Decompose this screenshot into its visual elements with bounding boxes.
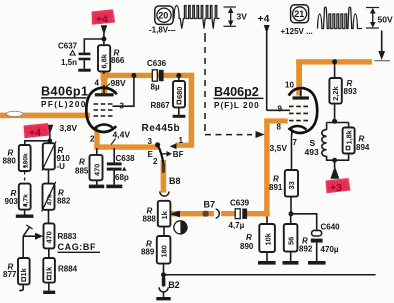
capacitor C639 [235,209,247,219]
svg-text:BF: BF [173,150,184,159]
svg-text:B2: B2 [168,280,180,290]
svg-text:68p: 68p [115,173,129,182]
B7 arrow into R888 node [169,211,180,218]
arrow +4 supply (top left) [101,25,108,35]
wire V1 cathode drop (orange) [94,131,99,150]
svg-text:-U: -U [57,162,66,171]
ground (R885) [89,180,104,188]
tube V1 envelope [86,88,117,132]
C640 labels [321,223,341,255]
node LC top [332,119,337,124]
svg-text:1,5n: 1,5n [61,58,77,67]
pin label 2 (V1 cathode) [90,135,95,144]
R885 label [75,158,89,176]
R883 label [58,232,78,241]
wire R910 to R882 [48,169,50,183]
svg-text:8µ: 8µ [151,83,160,92]
node cathode network [289,211,294,216]
svg-text:33: 33 [287,181,296,189]
svg-text:180: 180 [160,245,169,257]
node B (+4 left) [47,138,52,143]
wire node B to R880 [25,141,50,145]
R903 label [5,189,19,206]
svg-text:2: 2 [90,135,95,144]
svg-text:98V: 98V [111,78,126,88]
wire node to R892 [290,214,292,224]
tube V1 cathode [95,125,113,132]
connector B7 socket arc [216,209,220,218]
svg-text:680: 680 [175,87,184,99]
svg-text:+3: +3 [330,182,342,194]
svg-text:877: 877 [3,270,17,279]
relay Re445b label [142,123,181,134]
R892 label [299,237,313,254]
svg-text:47k: 47k [46,194,53,206]
wire R889 to node B2 [163,264,165,273]
wire R883 to R884 [48,248,50,258]
R893 label [344,79,358,96]
wire R893 to LC node [334,104,336,121]
svg-text:+125V ...: +125V ... [281,27,313,36]
resistor R892 [284,224,298,252]
CAG:BF label [58,242,101,252]
resistor R880 [19,145,31,171]
svg-text:892: 892 [299,245,313,254]
resistor R866 [98,45,110,71]
wire relay blade to B8 (orange) [161,160,167,193]
R891 label [269,175,283,193]
pin label 4 (V1 plate) [95,79,100,88]
VDR R882 [42,182,56,212]
resistor R884 [43,258,55,283]
tube V2 envelope [289,88,318,133]
svg-text:4,4V: 4,4V [113,130,131,140]
98V label with leader [106,78,126,88]
potentiometer R883 [44,223,55,248]
R890 label [240,233,254,251]
R883 wiper arrow [23,225,43,240]
R888 label [143,207,157,224]
resistor R885 [90,148,103,180]
wire +4 to V2 pin 9 [267,109,290,111]
wire R880 to R903 (dashed) [24,172,26,181]
resistor R867 [173,76,185,115]
wire node B to R910 [48,141,50,143]
wire R882 to R883 [48,210,50,224]
resistor R891 [285,170,298,197]
tube V2 grid g3 [289,105,308,107]
wire bottom rail to right [164,274,376,276]
svg-text:1k: 1k [44,266,53,275]
pin label 10 [285,81,294,90]
resistor R889 [157,236,171,264]
inductor S493 [322,130,327,157]
cable marker ellipse on input wire [6,111,22,116]
B7 pin shading (dark over orange) [203,211,209,217]
svg-text:20: 20 [158,11,168,21]
svg-text:2,2k: 2,2k [331,86,340,101]
R877 bottom lead [20,284,24,290]
ground (C638) [106,185,122,189]
svg-text:Re445b: Re445b [142,123,181,134]
S493 label [305,138,319,157]
wire node to C640 [291,214,317,231]
symbol 20 test point [155,6,173,24]
node on plate rail (R893) [332,59,337,64]
wire R891 to node [290,197,292,214]
svg-text:470: 470 [45,231,54,243]
resistor R893 [329,78,341,104]
svg-text:C637: C637 [58,42,78,51]
resistor R903 [19,184,31,210]
R884 label [58,265,78,274]
tube V2 plate [293,96,309,99]
svg-text:1,8k: 1,8k [344,129,353,144]
svg-text:3,5V: 3,5V [270,143,288,153]
svg-text:10: 10 [285,81,294,90]
connector B7 labels [204,200,216,210]
3V measurement bracket [224,7,248,26]
wire +4 supply to node (top left) [103,33,105,46]
svg-text:3V: 3V [237,12,248,22]
red patch +3 (right) [326,178,351,194]
R889 label [141,240,155,257]
relay contact 3 [148,137,161,147]
svg-text:903: 903 [5,197,19,206]
svg-text:R884: R884 [58,265,78,274]
svg-text:B8: B8 [169,176,181,186]
connector B2 pin [162,277,180,290]
relay blade E-2 [148,145,164,166]
svg-text:R: R [246,233,252,242]
svg-text:B406p1: B406p1 [41,85,89,99]
svg-text:4: 4 [95,79,100,88]
wire grid input to V1 (orange horizontal) [0,113,90,119]
svg-text:891: 891 [269,183,283,192]
wire node to C637 [84,39,104,53]
svg-text:1k: 1k [160,210,169,219]
svg-text:C638: C638 [116,154,136,163]
wire R866 node to V1 plate (orange) [101,71,108,94]
R866 label [111,49,125,66]
pin label 3 (V1 g2) [120,102,125,111]
wire +98V rail through C636 (orange horizontal) [101,73,195,78]
ground (R903) [16,210,34,218]
pin label 9 [278,105,283,114]
svg-text:CAG:BF: CAG:BF [58,242,97,252]
wire V2 cathode to R891 [291,135,293,170]
waveform 20 [174,6,220,29]
svg-text:888: 888 [143,215,157,224]
resistor R890 [259,224,275,252]
svg-text:3,8V: 3,8V [60,123,78,133]
relay contact 1 [170,136,184,149]
svg-text:893: 893 [344,87,358,96]
R910 label [57,146,71,171]
ground (R892) [283,252,299,265]
tube V2 plate stem [300,90,302,96]
svg-text:1: 1 [179,136,184,145]
LC parallel frame [327,123,349,161]
relay actuate arrow BF [162,150,184,159]
svg-text:21: 21 [294,9,304,19]
svg-text:C639: C639 [230,199,250,208]
3,8V label [60,123,78,133]
svg-text:B406p2: B406p2 [214,85,259,99]
red patch +4 (top left) [92,9,116,25]
node on 98V rail (pin3) [131,73,136,78]
wire relay contact 1 stub (orange) [176,143,194,148]
tube V1 grid g1 [94,115,113,117]
svg-text:-1,8V---: -1,8V--- [149,26,176,35]
ground (R867) [173,115,186,118]
svg-text:B7: B7 [204,200,216,210]
svg-text:+4: +4 [29,127,41,139]
waveform 21 [318,7,363,28]
svg-text:470µ: 470µ [321,245,339,254]
C638 labels [115,154,135,182]
R880 label [3,149,17,166]
node A (R866 top) [101,37,106,42]
wire wiper to R877 [22,236,24,258]
wire V1 g2 pin3 to +98V rail [113,76,134,107]
tube V1 grid g3 [94,103,113,105]
node LC bottom [332,158,337,163]
svg-text:880: 880 [3,157,17,166]
+4 supply top middle [258,14,270,110]
svg-text:9: 9 [278,105,283,114]
capacitor C638 [107,148,122,185]
resistor R894 [343,128,355,154]
+4 supply arrow (left, over patch) [46,125,53,141]
wire riser to V2 grid pin 8 (orange) [264,118,288,123]
svg-text:4,7µ: 4,7µ [229,221,245,230]
svg-text:50V: 50V [378,15,393,25]
C637 label [58,42,78,67]
wire relay-1 up to +98V rail (orange vertical) [189,73,195,147]
pin label 7 [293,138,298,147]
svg-text:7: 7 [293,138,298,147]
svg-text:10k: 10k [263,232,272,245]
arrow +3 supply [330,160,339,179]
wire orange node to R890 [266,217,268,225]
connector B2 socket and ground [156,287,170,300]
C636 labels [147,59,167,92]
tube V2 cathode [289,126,307,135]
wire R888 to R889 [163,227,165,236]
wire B7 connector to C639 (orange) [221,211,236,216]
svg-text:6,8k: 6,8k [100,53,109,68]
wire R866 bottom stub [103,71,105,74]
symbol 21 test point [291,5,309,23]
svg-text:56: 56 [287,237,296,245]
svg-text:P(F)L 200: P(F)L 200 [214,101,260,110]
wire rail to R893 [334,62,336,78]
svg-text:882: 882 [57,197,71,206]
R867 label [151,101,171,110]
arrow 21 down to plate rail [375,31,391,61]
connector B8 socket [160,176,181,196]
svg-text:R867: R867 [151,101,171,110]
svg-text:+4: +4 [258,14,270,25]
svg-text:C636: C636 [147,59,167,68]
svg-text:C640: C640 [321,223,341,232]
capacitor C640 electrolytic [311,230,323,261]
resistor R888 [158,201,171,227]
wire cathode to relay contact 3 (orange) [94,144,159,149]
tube V2 grid g2 [289,112,308,114]
ground (R884) [43,283,55,294]
capacitor C636 [152,70,163,81]
red patch +4 (left) [24,123,50,139]
svg-text:889: 889 [141,248,155,257]
wire V2 plate rail (orange horizontal top right) [296,59,372,64]
svg-text:493: 493 [305,147,319,157]
svg-text:R: R [79,158,85,167]
R877 label [3,263,17,280]
V1 title B406p1 [41,85,89,109]
svg-text:894: 894 [356,143,370,152]
ground (C637) [78,69,90,72]
wire B7 from R888 node (orange) [171,211,215,216]
node B2 junction [161,272,166,277]
svg-text:885: 885 [75,167,89,176]
VDR R910 [42,142,56,171]
svg-text:R883: R883 [58,232,78,241]
wire V2 plate riser (orange) [296,60,302,96]
connector B8 pin (dark over orange) [162,164,165,174]
capacitor C637 [79,53,91,69]
pin label 8 [277,123,282,132]
label -1,8V [149,26,176,35]
R894 label [356,135,370,153]
half-dark circle marker [174,221,187,234]
C639 labels [229,199,250,231]
svg-text:470: 470 [92,164,101,176]
R882 label [57,189,71,206]
resistor R877 [18,258,30,284]
svg-text:2: 2 [153,157,158,166]
4,4V label with leader [111,130,130,145]
svg-text:+4: +4 [96,14,108,26]
svg-text:3: 3 [148,137,153,146]
svg-text:8: 8 [277,123,282,132]
wire C639 to V2 grid riser (orange) [247,211,270,216]
50V measurement bracket [366,8,393,29]
triode V1 plate [95,93,114,96]
tube V1 grid g2 [94,109,113,111]
triode V1 plate stem [103,85,105,93]
svg-text:1k: 1k [19,267,28,276]
label +125V [281,27,313,36]
3,5V label [270,143,288,153]
wire V2 grid riser (orange vertical) [264,122,269,217]
ground (C640) [308,261,326,265]
separator dashed line [205,33,265,138]
svg-text:890: 890 [240,242,254,251]
tube V2 grid g1 [289,120,308,122]
svg-text:PF(L)200: PF(L)200 [41,100,87,109]
node on rail (R867 top) [176,73,181,78]
ground (R890) [258,252,276,265]
V2 title B406p2 [214,85,264,110]
svg-text:866: 866 [111,56,125,65]
